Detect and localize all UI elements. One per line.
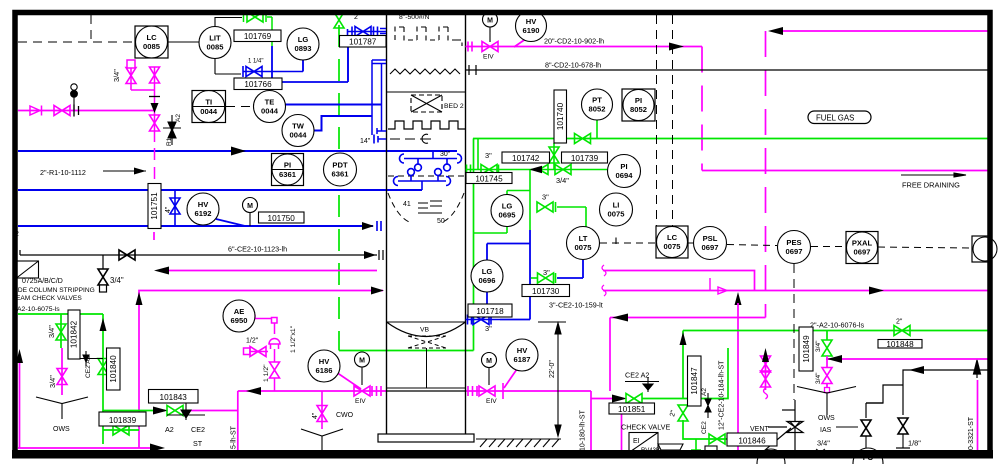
- tag 101742: [502, 152, 550, 163]
- funnel OWS right: [797, 387, 858, 428]
- svg-text:101766: 101766: [244, 80, 272, 89]
- green vertical valve x=554: [549, 143, 559, 170]
- magenta 1-1/2 branch assembly: [244, 315, 281, 392]
- wire blue y=190: [18, 189, 422, 191]
- distributor hopper: [388, 193, 464, 223]
- svg-text:CE2: CE2: [191, 425, 205, 434]
- instrument LG0696: [471, 260, 503, 292]
- svg-text:LIT: LIT: [209, 34, 221, 43]
- blue distributor lower arm: [394, 169, 451, 190]
- vortex breaker VB: [408, 336, 446, 388]
- svg-text:101787: 101787: [349, 38, 377, 47]
- svg-text:0694: 0694: [616, 171, 634, 180]
- svg-text:8052: 8052: [630, 105, 647, 114]
- wire blue y=226: [18, 225, 373, 227]
- interlock box left: [17, 261, 39, 278]
- svg-text:BED 2: BED 2: [444, 103, 464, 110]
- black drop 3/4 valve x=103 steam: [98, 255, 108, 292]
- instrument PXAL0697: [846, 232, 878, 264]
- svg-text:101730: 101730: [532, 287, 560, 296]
- spec break A2/CE2 bottom: [167, 403, 205, 420]
- arrow up + drop at x=738: [735, 292, 742, 305]
- tag 101840 vertical: [107, 348, 121, 390]
- check valve EI box: [629, 433, 717, 453]
- spec break R1/A2: [163, 115, 181, 145]
- wire magenta x=738 drop: [737, 303, 739, 450]
- black valve OWS/IAS v1: [861, 420, 871, 436]
- svg-text:3/4": 3/4": [110, 276, 124, 285]
- dashed vertical PES x=794: [793, 264, 795, 400]
- svg-text:EI: EI: [633, 438, 640, 445]
- svg-text:PI: PI: [620, 162, 627, 171]
- arrow on 20in line: [669, 43, 684, 51]
- svg-text:M: M: [487, 18, 493, 25]
- svg-text:VENT: VENT: [750, 426, 769, 433]
- wire magenta y=170.5 to right border: [702, 170, 988, 172]
- instrument LC0085: [135, 26, 168, 58]
- svg-text:10-180-lh-ST: 10-180-lh-ST: [580, 409, 587, 451]
- tag 101848: [878, 340, 922, 350]
- svg-text:3/4": 3/4": [817, 439, 830, 448]
- wire black LC to LIT: [168, 41, 199, 43]
- green drop x=827 to magenta: [822, 331, 832, 357]
- magenta right riser x=977.5: [977, 380, 979, 450]
- wire magenta vertical x=139 behind box (drawn), green branch y=430: [103, 425, 139, 435]
- svg-text:101842: 101842: [70, 320, 79, 348]
- M actuator bottom-left: [361, 367, 363, 385]
- arrow up on green x=103: [100, 318, 107, 331]
- svg-text:HV: HV: [517, 346, 528, 355]
- svg-text:101769: 101769: [244, 32, 272, 41]
- wire magenta y=290.5 left with corner x=139: [139, 291, 383, 449]
- svg-text:OWS: OWS: [818, 415, 835, 422]
- svg-text:101848: 101848: [886, 340, 914, 349]
- black LIT drop to valve row: [215, 59, 241, 75]
- wire green x=683 to 101846: [683, 420, 727, 439]
- black pipe top right of VENT valve: [866, 402, 883, 404]
- svg-text:PXAL: PXAL: [852, 239, 873, 248]
- instrument HV6186: [308, 350, 340, 382]
- svg-text:0075: 0075: [608, 210, 626, 219]
- instrument HV6187: [506, 339, 538, 371]
- svg-text:101740: 101740: [556, 102, 565, 130]
- valve green y=410.5: [167, 406, 183, 416]
- svg-text:0697: 0697: [786, 247, 803, 256]
- blue 101787 valve row y=31: [348, 27, 387, 81]
- svg-text:101751: 101751: [150, 192, 159, 220]
- svg-text:6361: 6361: [332, 170, 350, 179]
- instrument HV6190: [516, 11, 547, 42]
- wire magenta dash stub x=154: [153, 232, 155, 243]
- tag 101847 vertical: [688, 356, 702, 406]
- packing support zigzag y=72: [390, 69, 460, 74]
- svg-text:1/8": 1/8": [908, 439, 921, 448]
- tag 101842 vertical: [68, 310, 80, 359]
- valve magenta x=62 below: [57, 348, 67, 395]
- svg-text:EIV: EIV: [486, 398, 497, 405]
- valve magenta on y=110.5: [54, 106, 70, 116]
- instrument AE6950: [223, 300, 255, 332]
- dashed LC0085 lines: [18, 41, 135, 43]
- svg-text:41: 41: [403, 201, 411, 208]
- wire green main y=138.5: [473, 138, 988, 140]
- arrow black on y=169.5: [529, 166, 542, 173]
- free draining arrow: [901, 173, 966, 177]
- arrow right on y=290.5 at x=876: [869, 287, 884, 295]
- svg-text:3/4": 3/4": [47, 325, 56, 338]
- tag 101839: [99, 412, 146, 426]
- svg-text:CE2 A2: CE2 A2: [85, 355, 92, 378]
- arrow up at x=977: [974, 360, 981, 378]
- svg-text:LG: LG: [502, 202, 513, 211]
- instrument TW0044: [282, 115, 314, 147]
- tag 101766: [234, 78, 282, 90]
- wire green under-column loop y=350.5: [339, 350, 474, 352]
- instrument PT8052: [582, 89, 613, 120]
- svg-text:CE2: CE2: [701, 421, 708, 434]
- dashed TI-TE: [226, 106, 253, 108]
- svg-text:30": 30": [440, 151, 451, 158]
- wire black 8in CD2 line y=70: [465, 69, 988, 71]
- M actuator bottom-right: [488, 367, 490, 385]
- instrument TI0044: [192, 91, 226, 123]
- svg-text:CWO: CWO: [336, 412, 354, 419]
- instrument LG0695: [491, 195, 523, 227]
- wire magenta left riser x=19.5: [19, 360, 21, 448]
- svg-text:VB: VB: [420, 327, 430, 334]
- svg-text:3": 3": [542, 193, 549, 202]
- svg-text:LT: LT: [579, 234, 588, 243]
- svg-text:6"-CE2-10-1123-lh: 6"-CE2-10-1123-lh: [228, 245, 287, 254]
- instrument PES0697: [778, 231, 811, 264]
- wire magenta dashed drop x=765.5: [765, 31, 767, 318]
- svg-text:8052: 8052: [589, 105, 606, 114]
- arrow on top-right line: [768, 27, 783, 35]
- svg-text:6186: 6186: [316, 366, 333, 375]
- svg-text:PT: PT: [592, 96, 602, 105]
- svg-text:HV: HV: [319, 357, 330, 366]
- instrument partial square right border: [972, 236, 997, 262]
- wire magenta y=359: [826, 358, 988, 360]
- arrow up vent stack: [762, 348, 769, 362]
- skirt internal line y=388: [387, 387, 466, 389]
- instrument M bottom-right: [482, 353, 497, 368]
- tag 101718: [468, 304, 512, 317]
- svg-text:LC: LC: [667, 233, 678, 242]
- wire magenta dashed drop x=702: [701, 47, 703, 171]
- tag 101851: [609, 403, 655, 414]
- instrument PSL0697: [694, 227, 727, 260]
- wire green dashed vertical x=339: [338, 25, 340, 351]
- magenta EIV top assembly: [466, 42, 500, 52]
- svg-text:101839: 101839: [109, 416, 137, 425]
- svg-text:0695: 0695: [499, 211, 517, 220]
- svg-text:101750: 101750: [268, 214, 296, 223]
- svg-text:4": 4": [165, 206, 172, 213]
- tag 101769: [234, 30, 281, 42]
- svg-text:OWS: OWS: [53, 426, 70, 433]
- svg-text:A2-10-6075-ls: A2-10-6075-ls: [17, 306, 60, 313]
- svg-text:FREE DRAINING: FREE DRAINING: [902, 181, 960, 190]
- green drain stub x=696: [691, 439, 701, 450]
- small black 3/4 valve glyph bottom: [812, 449, 825, 456]
- instrument LC0075: [656, 226, 688, 258]
- svg-text:0697: 0697: [854, 248, 871, 257]
- svg-text:R1: R1: [166, 137, 173, 146]
- valve green on LT line y=278: [531, 273, 556, 283]
- arrow up on x=139: [136, 292, 143, 305]
- spec break CE2/A2 near 101851: [625, 377, 659, 392]
- svg-text:PSL: PSL: [703, 234, 718, 243]
- break squiggles: [602, 265, 606, 296]
- svg-text:LG: LG: [482, 267, 493, 276]
- LG0893 drop: [302, 60, 304, 72]
- svg-text:0075: 0075: [575, 243, 593, 252]
- svg-text:3": 3": [485, 324, 492, 333]
- svg-text:4": 4": [312, 412, 319, 419]
- tag 101787: [340, 36, 387, 48]
- svg-text:CE2 A2: CE2 A2: [625, 371, 649, 380]
- BED 2 box: [411, 95, 442, 112]
- PT8052 drop: [596, 120, 598, 139]
- instrument LG0893: [287, 28, 319, 60]
- svg-text:0725A/B/C/D: 0725A/B/C/D: [22, 278, 63, 285]
- instrument circle under 101846: [757, 449, 785, 469]
- valve green x=61 branch: [56, 314, 66, 348]
- svg-text:2"-A2-10-6076-ls: 2"-A2-10-6076-ls: [810, 321, 864, 330]
- wire green vertical right of column x=473.5: [473, 139, 475, 351]
- 14in flange blue: [374, 135, 386, 144]
- tag 101843: [149, 390, 199, 404]
- svg-text:LG: LG: [298, 35, 309, 44]
- magenta EIV bottom-left assembly: [336, 372, 381, 396]
- instrument PDT6361: [324, 153, 357, 186]
- dashed verticals x=656.5 x=672.5: [18, 15, 794, 400]
- svg-text:22'-0": 22'-0": [549, 360, 556, 378]
- svg-text:EAM CHECK VALVES: EAM CHECK VALVES: [16, 295, 82, 302]
- wire magenta y=110.5: [18, 110, 155, 112]
- tag 101751 vertical: [148, 184, 161, 229]
- blue HV6192 diagonal: [216, 219, 245, 226]
- wire green drop x=683: [682, 331, 684, 399]
- svg-text:1/2": 1/2": [246, 338, 259, 345]
- svg-text:PI: PI: [635, 96, 642, 105]
- svg-text:3/4": 3/4": [48, 375, 57, 388]
- reducer on magenta y=110.5: [30, 106, 42, 116]
- svg-text:1 1/2": 1 1/2": [263, 364, 270, 382]
- instrument LIT0085: [199, 27, 231, 59]
- wire green vertical x=103: [103, 314, 165, 411]
- svg-text:M: M: [359, 358, 365, 365]
- column bottom head: [387, 322, 466, 337]
- svg-text:50: 50: [437, 218, 445, 225]
- svg-text:FUEL GAS: FUEL GAS: [816, 114, 854, 123]
- svg-text:PDT: PDT: [332, 161, 348, 170]
- svg-text:101718: 101718: [476, 307, 504, 316]
- svg-text:101851: 101851: [618, 405, 646, 414]
- svg-text:0044: 0044: [261, 107, 279, 116]
- bottom border thick bar: [12, 450, 993, 459]
- black ticks on y=110.5: [74, 105, 79, 117]
- M actuator stem top: [489, 27, 491, 42]
- instrument PI6361: [272, 154, 304, 186]
- svg-text:ST: ST: [193, 439, 203, 448]
- svg-text:20"-CD2-10-902-lh: 20"-CD2-10-902-lh: [544, 37, 604, 46]
- M stem 101750: [249, 212, 251, 226]
- blue LT0075 standpipe: [487, 230, 583, 320]
- tag 101730: [522, 285, 570, 297]
- svg-text:0085: 0085: [207, 43, 225, 52]
- wire magenta y=270.5 left: [167, 270, 377, 272]
- 4way black valve: [758, 400, 803, 456]
- svg-text:LC: LC: [146, 33, 157, 42]
- svg-text:0085: 0085: [143, 42, 161, 51]
- sample ball symbol: [71, 84, 78, 110]
- svg-text:HV: HV: [198, 200, 209, 209]
- arrow+flange at column on blue y=226: [362, 222, 374, 230]
- arrow into column y=290.5: [371, 287, 384, 295]
- svg-text:EIV: EIV: [355, 398, 366, 405]
- bed interface dashed y=176: [388, 175, 464, 177]
- svg-text:0696: 0696: [479, 276, 496, 285]
- wire magenta y=270.5 right: [603, 271, 755, 291]
- wire magenta EIV line y=391 right: [466, 390, 591, 392]
- wire green y=398.5 to x=728 riser: [642, 348, 728, 399]
- instrument HV6192: [187, 193, 219, 225]
- black valve v2: [898, 418, 908, 434]
- tick at x=503 on y=391: [502, 383, 504, 399]
- arrow black on green y=410.5: [153, 407, 168, 415]
- green drop into 101769 box / blue below: [271, 41, 273, 46]
- valve green vertical top x=339: [334, 12, 344, 28]
- svg-text:6190: 6190: [523, 26, 540, 35]
- svg-text:0044: 0044: [200, 107, 218, 116]
- instrument TE0044: [254, 91, 286, 123]
- arrow on bottom magenta: [150, 444, 165, 453]
- blue nozzle row y=319.5: [466, 315, 501, 325]
- svg-text:3/4": 3/4": [815, 340, 822, 352]
- svg-text:CHECK VALVE: CHECK VALVE: [621, 423, 670, 432]
- base plate: [378, 434, 474, 442]
- valve green top LIT: [244, 12, 273, 30]
- green LG0695 piping: [474, 170, 586, 234]
- svg-text:M: M: [486, 358, 492, 365]
- svg-text:5-lh-ST: 5-lh-ST: [231, 425, 238, 449]
- svg-text:101739: 101739: [571, 154, 599, 163]
- svg-text:101843: 101843: [160, 393, 188, 402]
- funnel OWS left: [36, 397, 88, 419]
- tag 101750: [259, 212, 305, 223]
- svg-text:A2: A2: [175, 114, 182, 122]
- svg-text:0075: 0075: [664, 242, 682, 251]
- svg-text:3": 3": [543, 268, 550, 277]
- valve green y=439: [709, 434, 725, 444]
- valve green 2in on y=330.5: [894, 326, 910, 336]
- svg-text:8"-CD2-10-678-lh: 8"-CD2-10-678-lh: [545, 61, 601, 70]
- magenta EIV bottom-right assembly: [468, 386, 495, 396]
- svg-text:1 1/2"x1": 1 1/2"x1": [290, 325, 297, 353]
- svg-text:HV: HV: [526, 17, 537, 26]
- instrument FO clipped: [853, 448, 883, 469]
- wire black steam y=255: [20, 250, 377, 255]
- arrow left on y=359: [827, 355, 842, 363]
- svg-text:EIV: EIV: [483, 54, 494, 61]
- label line 2in R1: [103, 170, 146, 172]
- svg-text:TE: TE: [265, 98, 275, 107]
- svg-text:A2: A2: [701, 388, 708, 396]
- svg-text:3/4": 3/4": [815, 372, 822, 384]
- blue distributor upper arm: [400, 151, 462, 171]
- SEC-TAGS: [68, 30, 922, 446]
- wire black y=370 right corner: [866, 370, 988, 418]
- magenta vent stack x=765.5: [761, 352, 771, 399]
- wire magenta branch y=398.5 to arrow/valve: [591, 398, 614, 400]
- blue line under 101766 y=82: [272, 46, 348, 82]
- spec break CE2/A2 at 101842: [78, 351, 103, 366]
- wire magenta drop below 101851: [621, 413, 623, 450]
- wire magenta top-right 31: [782, 30, 988, 32]
- svg-text:AE: AE: [234, 307, 245, 316]
- wire magenta 20in line y=46.5: [499, 46, 702, 48]
- instrument PI0694: [608, 155, 641, 188]
- svg-text:2": 2": [896, 319, 903, 326]
- svg-text:101745: 101745: [475, 174, 503, 183]
- blue 1-1/4 valve row y=71.5: [243, 60, 303, 77]
- column internal line y=92: [387, 91, 466, 93]
- wire magenta riser x=237.8: [237, 391, 239, 450]
- arrow on blue y=151: [231, 147, 246, 156]
- green nozzle row y=169.5: [466, 139, 608, 175]
- CWO drain: [317, 391, 327, 429]
- svg-text:12"-CE2-10-184-lh-ST: 12"-CE2-10-184-lh-ST: [719, 360, 726, 430]
- svg-text:0-3321-ST: 0-3321-ST: [968, 416, 975, 450]
- magenta diagonal to HV6190: [514, 32, 536, 47]
- magenta below x=827: [822, 356, 832, 393]
- column shell walls: [386, 14, 388, 434]
- svg-text:101849: 101849: [802, 335, 811, 363]
- wire magenta bottom y=448: [18, 447, 152, 449]
- svg-text:3": 3": [485, 151, 492, 160]
- svg-text:3/4": 3/4": [556, 176, 569, 185]
- arrow on y=391: [246, 387, 261, 395]
- instrument LI0075: [600, 193, 633, 226]
- wire magenta y=317.5: [610, 317, 766, 319]
- instrument LT0075: [567, 227, 600, 260]
- arrow up on x=683: [680, 332, 687, 345]
- instrument M 101750: [243, 198, 258, 213]
- tag 101739: [562, 152, 608, 163]
- svg-text:PI: PI: [284, 161, 291, 170]
- svg-text:IAS: IAS: [820, 427, 832, 434]
- svg-text:6361: 6361: [279, 170, 297, 179]
- svg-text:2"-R1-10-1112: 2"-R1-10-1112: [40, 168, 86, 177]
- tag 101846: [727, 433, 777, 446]
- black LIT top run to green valve: [215, 18, 242, 28]
- svg-text:6192: 6192: [195, 209, 212, 218]
- valve flag magenta on y=290.5: [710, 278, 727, 294]
- tag 101849 vertical: [799, 327, 813, 371]
- tag 101740 vertical: [554, 90, 567, 143]
- instrument PI8052: [622, 89, 655, 121]
- svg-text:101742: 101742: [512, 154, 540, 163]
- black pipe inside skirt y=391: [387, 390, 466, 392]
- wire magenta EIV line y=391 left: [238, 390, 387, 392]
- arrow left on y=370: [909, 366, 924, 374]
- arrow top of left riser: [16, 349, 23, 363]
- wire magenta corner x=591 down: [590, 391, 592, 450]
- tick on dashed line: [615, 238, 617, 245]
- svg-text:3"-CE2-10-159-lt: 3"-CE2-10-159-lt: [549, 301, 603, 310]
